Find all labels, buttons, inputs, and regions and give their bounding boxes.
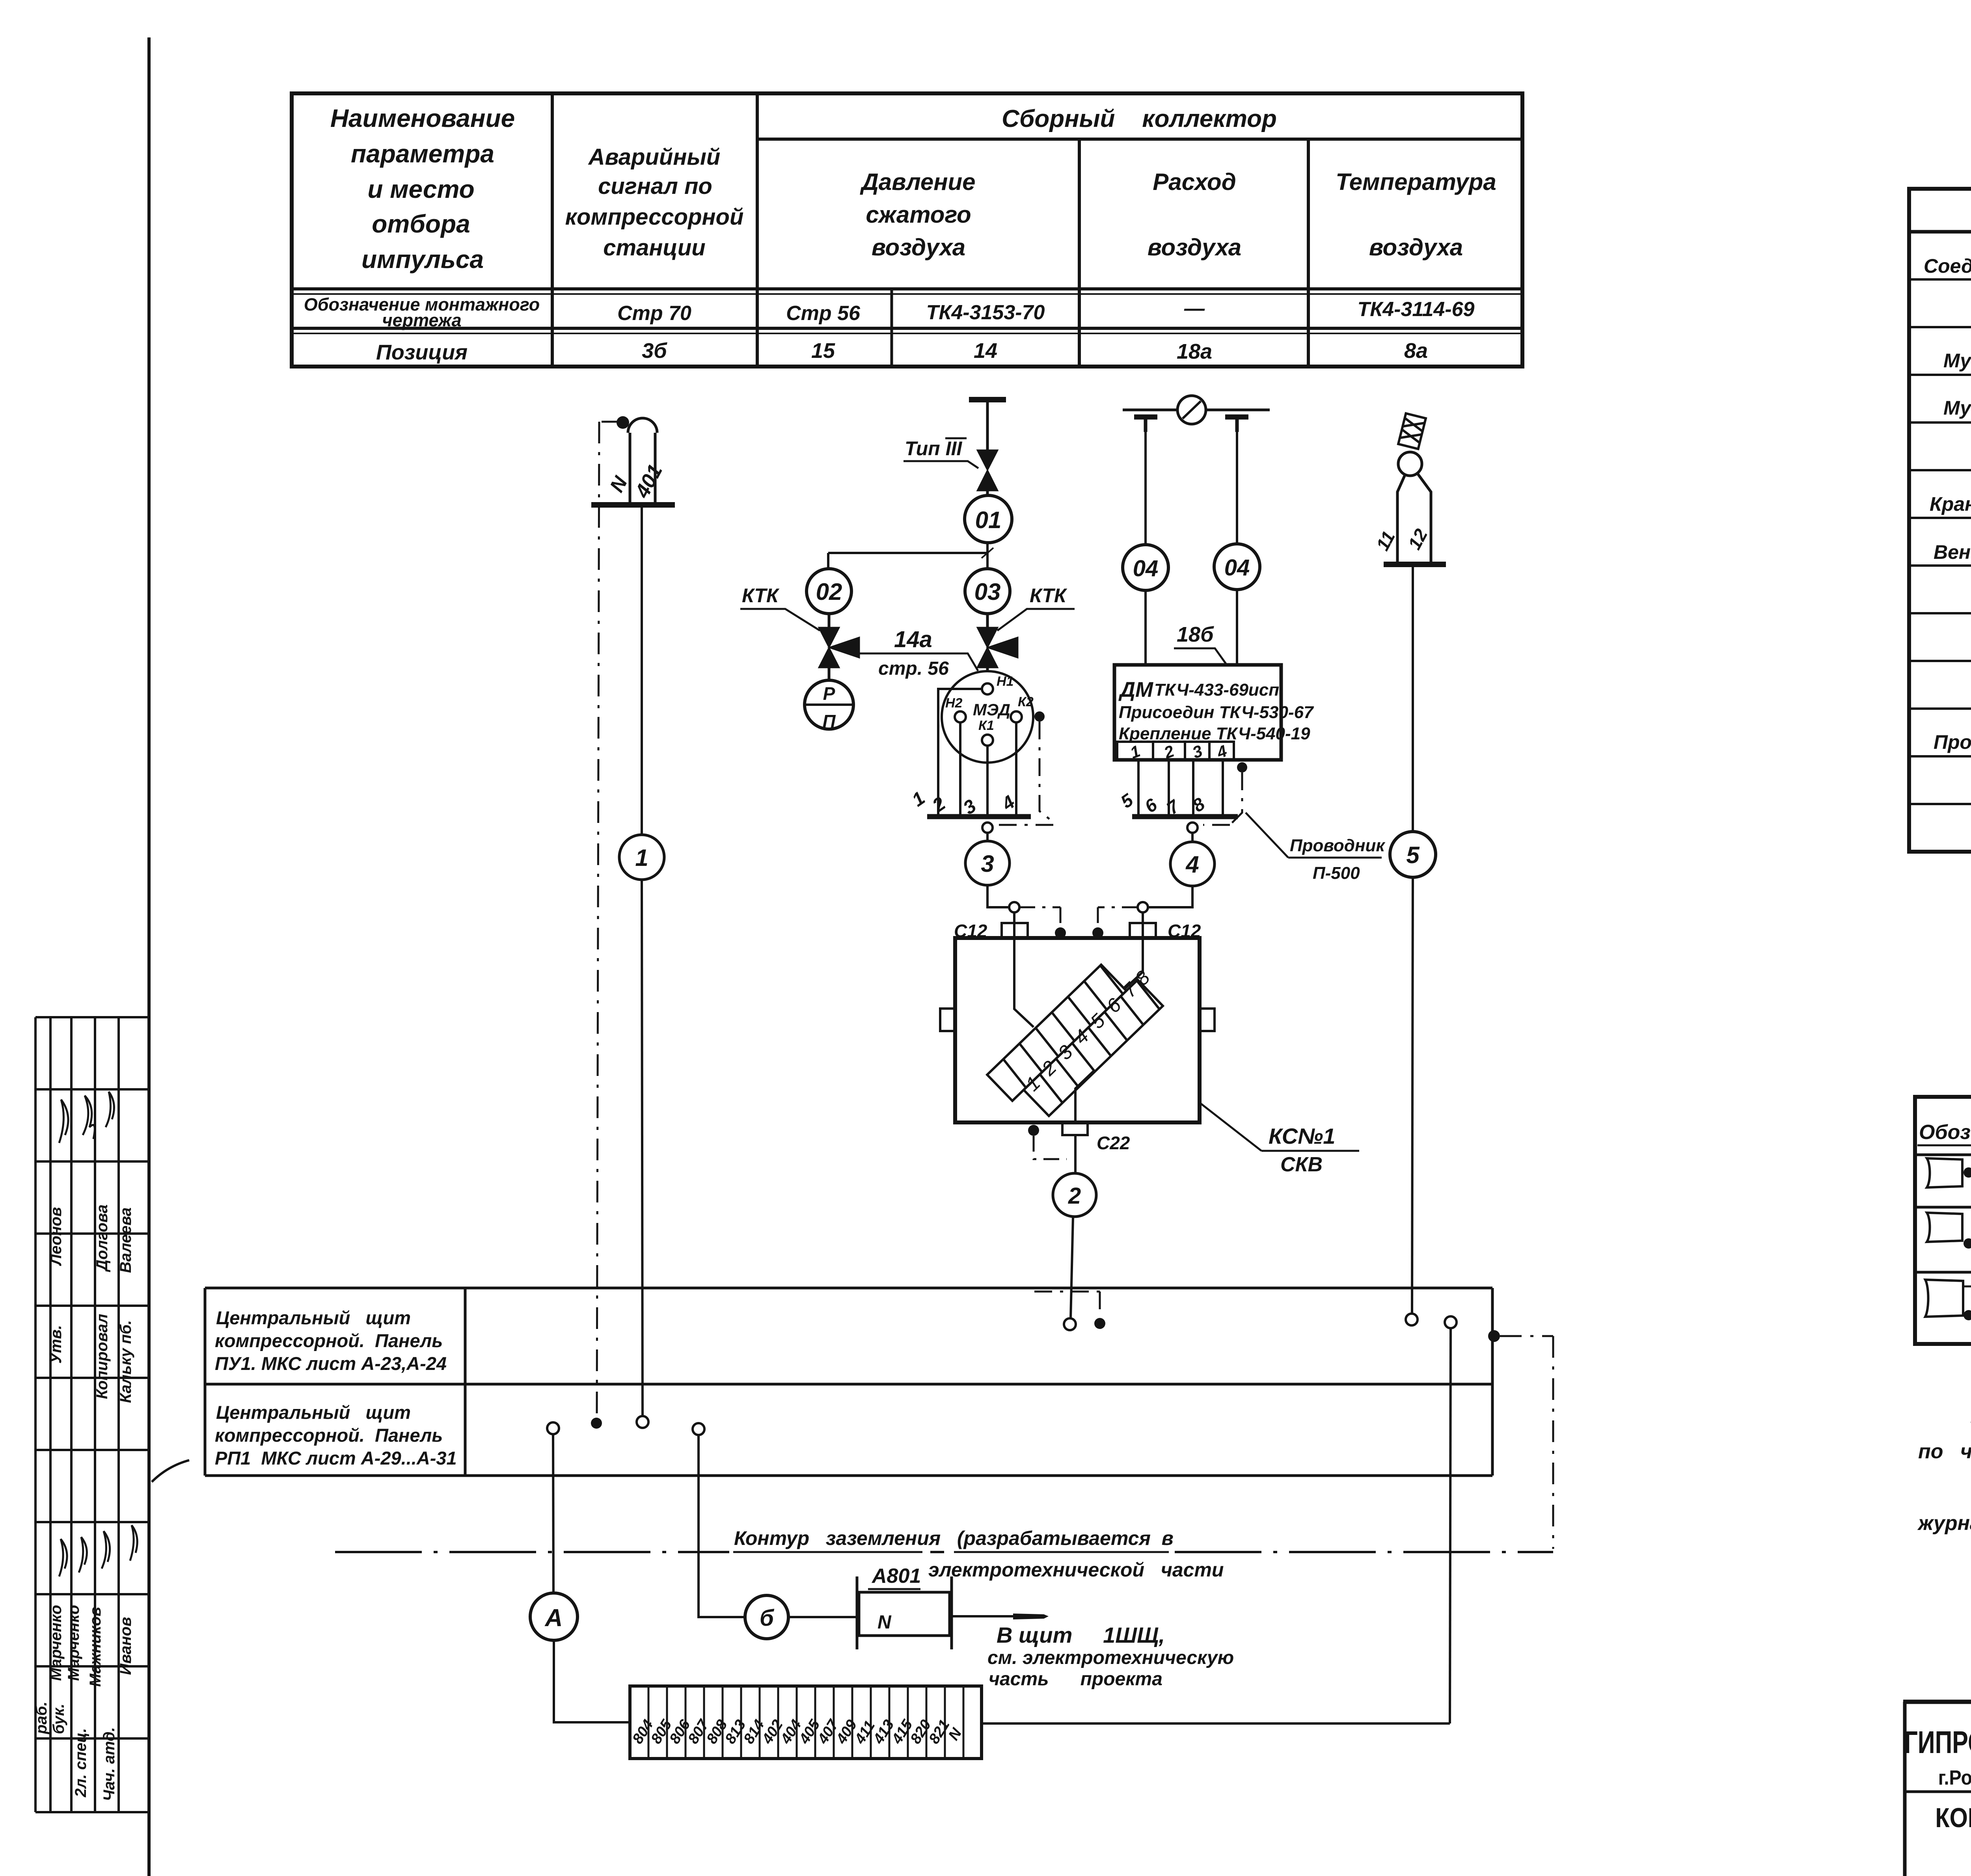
- svg-text:Центральный щит: Центральный щит: [216, 1307, 411, 1328]
- internal wire to bottom gland: [1075, 1070, 1094, 1122]
- spec table header bottom: [1909, 230, 1971, 234]
- svg-text:КОМПРЕССОРНАЯ: КОМПРЕССОРНАЯ: [1935, 1802, 1971, 1833]
- ДМ wires to bus: [1138, 760, 1223, 814]
- spec row Соединительная коробка ОК8 ОН8-1-64 шт 1: [1924, 253, 1971, 277]
- ground loop dash-dot line: [335, 1551, 1553, 1553]
- wire 2 end terminal circle: [1064, 1318, 1076, 1330]
- svg-text:3: 3: [981, 851, 994, 877]
- svg-text:ПУ1. МКС лист А-23,А-24: ПУ1. МКС лист А-23,А-24: [215, 1353, 447, 1374]
- specification table frame: [1909, 189, 1971, 852]
- svg-text:Муфта: Муфта: [1943, 397, 1971, 419]
- svg-text:С22: С22: [1097, 1133, 1130, 1153]
- wire 5 end terminal circle: [1406, 1314, 1418, 1325]
- svg-text:чертежа: чертежа: [382, 310, 461, 330]
- svg-text:П-500: П-500: [1313, 864, 1360, 883]
- svg-text:Обозначения: Обозначения: [1919, 1121, 1971, 1144]
- panel label divider: [464, 1288, 467, 1476]
- parameter table header text col1: [330, 104, 515, 274]
- svg-text:ТКЧ-433-69исп: ТКЧ-433-69исп: [1154, 680, 1279, 700]
- pipe tap T-bar above valve: [969, 397, 1006, 402]
- svg-text:Проводник: Проводник: [1290, 836, 1386, 855]
- МЭД terminal Н1: [982, 683, 993, 694]
- parameter table vertical split Стр56|ТК4: [890, 289, 893, 367]
- svg-text:Стр 56: Стр 56: [786, 302, 861, 325]
- svg-text:воздуха: воздуха: [1369, 234, 1463, 261]
- junction circle below bus: [982, 823, 993, 833]
- valve Тип III (shut-off): [977, 450, 998, 491]
- parameter table outer frame: [292, 93, 1522, 367]
- circle А: [530, 1593, 578, 1640]
- instrument circle 04 right: [1214, 544, 1260, 590]
- bottom cable gland С22: [1062, 1122, 1088, 1135]
- cable gland left С12: [1002, 923, 1028, 938]
- svg-text:МЭД: МЭД: [973, 700, 1010, 719]
- svg-text:импульса: импульса: [361, 245, 484, 274]
- svg-text:воздуха: воздуха: [872, 234, 965, 261]
- armour ground dot right (on box edge): [1092, 927, 1103, 938]
- impulse wire left lower: [1144, 590, 1147, 665]
- svg-text:2л. спец.: 2л. спец.: [72, 1728, 89, 1798]
- МЭД wire 3: [986, 746, 989, 814]
- svg-text:Утв.: Утв.: [47, 1325, 65, 1364]
- svg-text:8а: 8а: [1404, 339, 1428, 363]
- terminal strip numbers: [629, 1716, 965, 1747]
- svg-text:отбора: отбора: [372, 210, 470, 238]
- ДМ terminal strip 1 2 3 4: [1117, 742, 1234, 760]
- svg-text:Соединительная коробка: Соединительная коробка: [1924, 255, 1971, 277]
- legend symbol row3: conductor to armour: [1925, 1280, 1963, 1317]
- МЭД wire 4: [1015, 722, 1017, 814]
- svg-text:02: 02: [816, 579, 842, 605]
- impulse wire left: [1144, 432, 1147, 545]
- corridor box bottom edge: [205, 1474, 1492, 1477]
- device N401 top junction dot: [617, 416, 629, 429]
- svg-text:Марченко: Марченко: [47, 1605, 65, 1681]
- svg-text:по черт. ТК4-517-69: по черт. ТК4-517-69: [1918, 1440, 1971, 1463]
- junction circle below ДМ bus: [1187, 823, 1198, 833]
- parameter table header Температура воздуха: [1336, 169, 1496, 261]
- title block left border: [1903, 1702, 1907, 1876]
- transmitter МЭД body circle: [942, 671, 1033, 763]
- sidebar rotated names: [33, 1204, 134, 1801]
- spec row Муфта МС3 ТК4-245-71 шт 1: [1943, 395, 1971, 419]
- terminal circle wire б: [693, 1423, 704, 1435]
- svg-text:Аварийный: Аварийный: [588, 144, 721, 170]
- armour ground dash-dot right: [1098, 907, 1138, 925]
- left pipe tap bar: [1134, 415, 1157, 420]
- armour ground dot left (on box edge): [1055, 927, 1066, 938]
- parameter table row line above Позиция: [292, 327, 1522, 330]
- svg-text:ТК4-3153-70: ТК4-3153-70: [926, 301, 1045, 324]
- legend row line 1: [1915, 1206, 1971, 1209]
- fuse link А801 body: [857, 1576, 952, 1649]
- svg-text:04: 04: [1133, 556, 1159, 581]
- svg-text:компрессорной. Панель: компрессорной. Панель: [215, 1330, 443, 1351]
- terminal circle of strip return wire: [1445, 1316, 1457, 1328]
- wire marker circle 3: [965, 841, 1010, 885]
- wire 2 upper segment: [1074, 1135, 1077, 1173]
- float circle: [1398, 452, 1422, 476]
- wire 2 ground dash-dot bracket: [1034, 1292, 1100, 1317]
- svg-text:Н2: Н2: [945, 696, 963, 711]
- grounding conductor dash-dot along wire 1: [597, 422, 599, 1417]
- svg-text:15: 15: [811, 339, 835, 363]
- svg-text:Центральный щит: Центральный щит: [216, 1402, 411, 1423]
- wire А lower / to strip: [554, 1640, 630, 1722]
- ДМ ground dot below box: [1237, 762, 1247, 772]
- wire 5 upper segment: [1412, 564, 1414, 832]
- title block top border: [1903, 1700, 1971, 1704]
- svg-text:и место: и место: [367, 175, 474, 203]
- wire 2 lower segment: [1071, 1217, 1073, 1318]
- svg-text:3б: 3б: [642, 339, 667, 363]
- box side tab left: [940, 1009, 955, 1031]
- device N401 body: [628, 418, 657, 505]
- control cock КТК right (three-way): [986, 614, 989, 627]
- МЭД wiring frame (terminal 1): [938, 689, 982, 814]
- svg-text:Давление: Давление: [859, 169, 975, 195]
- svg-text:Валеева: Валеева: [117, 1208, 134, 1273]
- svg-text:Иванов: Иванов: [117, 1617, 134, 1675]
- svg-text:Проводник: Проводник: [1934, 731, 1971, 753]
- svg-text:СКВ: СКВ: [1280, 1153, 1323, 1176]
- svg-text:Присоедин ТКЧ-530-67: Присоедин ТКЧ-530-67: [1119, 703, 1314, 722]
- internal wire left: [1014, 938, 1034, 1027]
- svg-text:КТК: КТК: [1030, 584, 1067, 607]
- wire to щит 1ШЩ with arrow: [952, 1615, 1013, 1617]
- svg-text:Леонов: Леонов: [47, 1207, 65, 1266]
- svg-text:К1: К1: [978, 718, 994, 733]
- svg-text:Позиция: Позиция: [376, 341, 468, 364]
- svg-text:Кран контрольный: Кран контрольный: [1930, 493, 1971, 515]
- МЭД terminal К1: [982, 735, 993, 746]
- flask body: [1397, 474, 1431, 564]
- parameter table subheader line under Сборный коллектор: [757, 138, 1522, 141]
- legend symbol row2: cable core used for grounding: [1927, 1213, 1962, 1242]
- svg-text:компрессорной. Панель: компрессорной. Панель: [215, 1425, 443, 1446]
- terminal strip body: [630, 1686, 982, 1759]
- svg-text:г.Ростов-на-Дону 1976г.: г.Ростов-на-Дону 1976г.: [1938, 1766, 1971, 1789]
- svg-text:П: П: [822, 711, 836, 731]
- svg-text:А: А: [544, 1604, 563, 1632]
- armour grounding circle left: [1009, 902, 1019, 912]
- svg-text:бук.: бук.: [50, 1704, 67, 1734]
- box side tab right: [1200, 1009, 1215, 1031]
- svg-text:01: 01: [975, 507, 1002, 533]
- svg-text:14а: 14а: [894, 627, 932, 652]
- instrument circle 03: [965, 569, 1010, 614]
- svg-text:Тип III: Тип III: [905, 437, 962, 460]
- device N401 grounding dash-dot branch: [602, 421, 624, 423]
- svg-text:К2: К2: [1018, 694, 1034, 709]
- parameter table header bottom line: [292, 287, 1522, 290]
- svg-text:КТК: КТК: [742, 584, 780, 607]
- svg-text:Чач. атд.: Чач. атд.: [101, 1727, 118, 1801]
- parameter table vertical col2|col3: [756, 93, 759, 367]
- panel ПУ1 label: [215, 1307, 447, 1374]
- svg-text:Стр 70: Стр 70: [617, 302, 691, 325]
- impulse wire right: [1236, 432, 1238, 544]
- box bottom ground dot: [1028, 1125, 1039, 1136]
- parameter table row values: Стр 70, Стр 56, ТК4-3153-70, -, ТК4-3114-69: [617, 297, 1474, 325]
- svg-text:журнал импульсных проводок: журнал импульсных проводок лист А-49: [1917, 1512, 1971, 1535]
- svg-text:2: 2: [1068, 1183, 1081, 1209]
- control cock КТК left (three-way): [828, 614, 831, 627]
- armour ground dash-dot left: [1019, 907, 1060, 925]
- instrument circle 04 left: [1123, 545, 1168, 590]
- instrument circle 01: [965, 495, 1012, 543]
- svg-text:сжатого: сжатого: [866, 201, 971, 228]
- parameter table vertical Давление|Расход: [1078, 139, 1081, 367]
- spec row Вентиль запорный Тип III dy=15мм шт 1: [1934, 540, 1971, 563]
- instrument circle 02: [807, 569, 851, 614]
- legend header bottom: [1915, 1154, 1971, 1156]
- wire 1 lower segment: [642, 880, 643, 1416]
- device ДМ box: [1114, 665, 1281, 760]
- left cell divider: [1905, 1790, 1971, 1793]
- sheet frame left border: [147, 37, 151, 1876]
- svg-text:Расход: Расход: [1153, 169, 1236, 195]
- ДМ ground dash-dot: [1203, 772, 1242, 825]
- flow nozzle circle: [1177, 396, 1206, 424]
- svg-text:станции: станции: [603, 235, 705, 261]
- spec row Муфта МС1 ТК4-245-71 шт 2: [1943, 348, 1971, 372]
- wire б to А801: [788, 1616, 857, 1618]
- svg-text:14: 14: [974, 339, 997, 363]
- indicator circle Р/П: [805, 680, 853, 729]
- corridor box middle edge: [205, 1383, 1492, 1386]
- corridor box left edge: [204, 1288, 207, 1476]
- panel РП1 label: [215, 1402, 457, 1468]
- МЭД terminal К2: [1011, 711, 1022, 722]
- armour grounding circle right: [1138, 902, 1148, 912]
- cable gland right С12: [1130, 923, 1156, 938]
- org city line: [1938, 1766, 1971, 1789]
- internal wire right: [1124, 938, 1143, 989]
- svg-text:18а: 18а: [1177, 340, 1212, 363]
- wire 1 end terminal circle: [637, 1416, 648, 1428]
- wire А vertical: [553, 1434, 553, 1593]
- central panel corridor box top edge: [205, 1287, 1492, 1290]
- svg-text:б: б: [760, 1605, 775, 1631]
- parameter table row Позиция values: [376, 339, 1428, 364]
- object КОМПРЕССОРНАЯ: [1935, 1802, 1971, 1833]
- svg-text:Муфта: Муфта: [1943, 350, 1971, 372]
- wire marker circle 4: [1170, 842, 1215, 886]
- wire marker circle 5: [1390, 832, 1436, 877]
- bus right dash-dot branch dot: [1488, 1330, 1500, 1342]
- orifice pipe line: [1123, 409, 1270, 411]
- svg-text:КС№1: КС№1: [1269, 1124, 1335, 1148]
- right pipe tap bar: [1225, 415, 1248, 420]
- svg-text:Температура: Температура: [1336, 169, 1496, 195]
- ДМ terminal bus bar: [1132, 814, 1238, 819]
- svg-text:РП1 МКС лист А-29...А-31: РП1 МКС лист А-29...А-31: [215, 1448, 457, 1468]
- wire 1 upper segment: [641, 505, 643, 835]
- svg-text:1: 1: [635, 845, 648, 871]
- base bar: [1384, 562, 1446, 567]
- strip return wire vertical: [1450, 1328, 1451, 1723]
- parameter table header Расход воздуха: [1148, 169, 1241, 261]
- МЭД terminal Н2: [955, 711, 966, 722]
- svg-text:18б: 18б: [1177, 623, 1214, 646]
- wire marker circle 2: [1053, 1173, 1096, 1217]
- parameter table vertical col1|col2: [551, 93, 554, 367]
- svg-text:4: 4: [1185, 851, 1199, 878]
- svg-text:ТК4-3114-69: ТК4-3114-69: [1358, 298, 1475, 321]
- svg-text:Контур заземления (разраба: Контур заземления (разрабатывается в: [734, 1527, 1174, 1549]
- svg-text:компрессорной: компрессорной: [565, 204, 744, 230]
- svg-text:—: —: [1184, 297, 1205, 320]
- strip return wire horizontal: [982, 1722, 1450, 1725]
- svg-text:Сборный коллектор: Сборный коллектор: [1002, 105, 1277, 132]
- svg-text:Наименование: Наименование: [330, 104, 515, 132]
- МЭД terminal bus bar: [927, 814, 1031, 819]
- svg-text:Копировал: Копировал: [93, 1314, 111, 1399]
- svg-text:В щит 1ШЩ,: В щит 1ШЩ,: [997, 1623, 1165, 1647]
- svg-text:электротехнической части: электротехнической части: [928, 1559, 1224, 1581]
- spec table row lines: [1909, 279, 1971, 804]
- svg-text:раб.: раб.: [33, 1701, 50, 1735]
- МЭД ground dash-dot: [993, 722, 1053, 825]
- wire б vertical and corner: [699, 1435, 745, 1617]
- svg-text:часть проекта: часть проекта: [989, 1669, 1162, 1690]
- terminal circle wire А: [547, 1422, 559, 1434]
- svg-text:Вентиль запорный: Вентиль запорный: [1934, 541, 1971, 563]
- parameter table header Давление сжатого воздуха: [859, 169, 975, 261]
- wire marker circle 1: [619, 835, 664, 880]
- svg-text:стр. 56: стр. 56: [878, 658, 949, 679]
- svg-text:Мажников: Мажников: [87, 1607, 104, 1687]
- parameter table vertical Расход|Температура: [1307, 139, 1310, 367]
- rotated terminal block: [987, 947, 1170, 1127]
- junction box body: [955, 938, 1200, 1122]
- wire from circle 4 into box: [1148, 886, 1192, 907]
- svg-text:Марченко: Марченко: [65, 1605, 82, 1681]
- org name ГИПРОСТРОЙДОРМАШ: [1904, 1725, 1971, 1760]
- svg-text:сигнал по: сигнал по: [598, 173, 712, 199]
- bus right dash-dot branch: [1500, 1336, 1553, 1549]
- device N401 base bar: [591, 502, 675, 508]
- spec row Проводник П-500 ТК4-393-71 шт 2: [1934, 730, 1971, 753]
- legend symbol row1: panel with ground conductor: [1927, 1158, 1962, 1187]
- wire from circle 3 into box: [987, 885, 1009, 907]
- circle б: [745, 1595, 788, 1639]
- svg-text:Долгова: Долгова: [93, 1204, 111, 1272]
- svg-text:5: 5: [1406, 842, 1420, 868]
- svg-text:Кальку пб.: Кальку пб.: [117, 1320, 134, 1403]
- svg-text:03: 03: [974, 579, 1001, 605]
- grounding conductor end dot: [591, 1418, 602, 1429]
- svg-text:воздуха: воздуха: [1148, 234, 1241, 261]
- spec row Кран контрольный КТК dy=3мм шт 2: [1930, 491, 1971, 515]
- corridor box right edge: [1491, 1288, 1494, 1476]
- svg-text:Р: Р: [823, 683, 835, 704]
- svg-text:04: 04: [1224, 555, 1250, 581]
- parameter table header text col2 Аварийный сигнал: [565, 144, 744, 261]
- svg-text:ГИПРОСТРОЙДОРМАШ: ГИПРОСТРОЙДОРМАШ: [1904, 1725, 1971, 1760]
- tee node below 01: [986, 543, 989, 569]
- legend row line 2: [1915, 1271, 1971, 1274]
- wire 2 ground end dot: [1094, 1318, 1105, 1329]
- svg-text:Н1: Н1: [997, 674, 1013, 689]
- wire 5 lower segment: [1412, 877, 1413, 1314]
- box bottom ground dash-dot: [1034, 1136, 1067, 1159]
- damper spring symbol: [1398, 413, 1426, 449]
- svg-text:см. электротехническую: см. электротехническую: [987, 1647, 1234, 1668]
- svg-text:ДМ: ДМ: [1118, 678, 1153, 702]
- svg-text:Крепление ТКЧ-540-19: Крепление ТКЧ-540-19: [1119, 724, 1310, 743]
- parameter table row Обозначение монтажного чертежа: [304, 294, 540, 330]
- МЭД wire 2: [959, 722, 961, 814]
- sidebar signatures scribbles: [59, 1092, 189, 1576]
- МЭД ground dot: [1034, 711, 1045, 722]
- impulse wire right lower: [1236, 590, 1238, 665]
- stub to 02: [827, 553, 829, 569]
- svg-text:N: N: [877, 1612, 892, 1633]
- svg-text:параметра: параметра: [351, 140, 494, 168]
- svg-text:А801: А801: [871, 1565, 921, 1588]
